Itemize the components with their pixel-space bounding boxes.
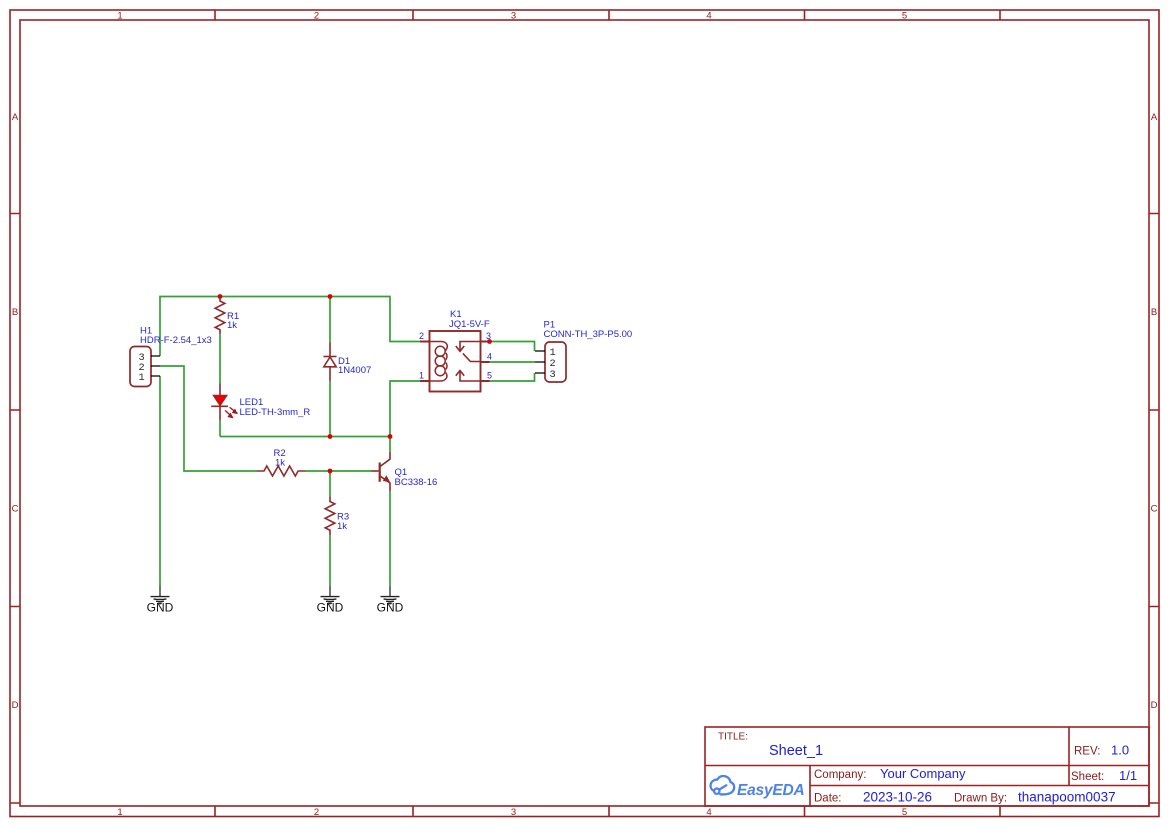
- svg-text:2: 2: [314, 807, 319, 818]
- svg-text:4: 4: [487, 352, 492, 362]
- svg-text:Sheet:: Sheet:: [1071, 771, 1104, 783]
- svg-text:1N4007: 1N4007: [338, 365, 371, 376]
- svg-text:HDR-F-2.54_1x3: HDR-F-2.54_1x3: [140, 335, 212, 346]
- wire relay pin1 to bottom rail: [390, 381, 420, 437]
- svg-text:C: C: [1151, 504, 1158, 515]
- ground GND (left, H1 pin1): [147, 586, 174, 615]
- junction node top rail / D1: [328, 294, 333, 299]
- svg-text:REV:: REV:: [1074, 746, 1100, 758]
- svg-text:1k: 1k: [227, 320, 237, 331]
- svg-text:Drawn By:: Drawn By:: [954, 793, 1007, 805]
- svg-text:Company:: Company:: [814, 769, 866, 781]
- svg-text:B: B: [12, 307, 18, 318]
- relay K1 coil: [430, 342, 447, 382]
- svg-text:Your Company: Your Company: [880, 766, 966, 781]
- junction node bottom rail / D1: [328, 434, 333, 439]
- svg-text:1: 1: [117, 11, 122, 22]
- wire bottom rail: [220, 436, 390, 438]
- relay K1 switch: [456, 342, 481, 382]
- svg-text:Date:: Date:: [814, 793, 842, 805]
- svg-text:GND: GND: [377, 601, 404, 615]
- wire H1 pin2 to R2 left: [160, 366, 257, 471]
- svg-text:BC338-16: BC338-16: [395, 477, 438, 488]
- resistor R2: [257, 466, 305, 476]
- svg-text:3: 3: [511, 11, 516, 22]
- svg-text:5: 5: [902, 11, 907, 22]
- svg-text:C: C: [12, 504, 19, 515]
- svg-text:Sheet_1: Sheet_1: [769, 743, 823, 759]
- svg-text:1k: 1k: [337, 521, 347, 532]
- wire R3 bottom to GND: [329, 535, 331, 586]
- ground GND (right, Q1 emitter): [377, 586, 404, 615]
- connector H1: [130, 347, 160, 387]
- title block: [705, 727, 1149, 806]
- svg-text:2: 2: [314, 11, 319, 22]
- diode D1: [324, 343, 337, 382]
- svg-text:1k: 1k: [275, 458, 285, 469]
- svg-text:5: 5: [487, 371, 492, 381]
- wire R1 bottom to LED1 anode: [219, 334, 221, 383]
- wire D1 cathode up to top rail: [329, 297, 331, 343]
- connector P1: [535, 342, 566, 382]
- wire Q1 emitter to GND: [389, 491, 391, 586]
- relay K1: [420, 331, 490, 392]
- svg-text:A: A: [1151, 112, 1158, 123]
- svg-text:thanapoom0037: thanapoom0037: [1018, 790, 1116, 805]
- svg-text:LED-TH-3mm_R: LED-TH-3mm_R: [240, 407, 311, 418]
- svg-text:EasyEDA: EasyEDA: [737, 782, 805, 799]
- wire base node down to R3: [329, 471, 331, 497]
- wire R2 right to Q1 base: [305, 470, 372, 472]
- transistor Q1: [372, 452, 391, 491]
- junction node top rail / R1: [218, 294, 223, 299]
- svg-text:B: B: [1151, 307, 1157, 318]
- ground GND (middle, R3): [317, 586, 344, 615]
- resistor R3: [325, 497, 335, 536]
- svg-text:D: D: [12, 700, 19, 711]
- resistor R1: [215, 297, 225, 335]
- svg-text:3: 3: [511, 807, 516, 818]
- svg-text:1.0: 1.0: [1111, 743, 1129, 758]
- svg-text:4: 4: [706, 807, 711, 818]
- svg-text:2: 2: [419, 331, 424, 341]
- wire relay pin4 to P1 pin2: [490, 361, 536, 363]
- LED LED1: [211, 384, 237, 421]
- wire LED1 cathode to bottom rail: [219, 421, 221, 437]
- svg-text:D: D: [1151, 700, 1158, 711]
- wire D1 anode down to bottom rail: [329, 381, 331, 437]
- svg-text:A: A: [12, 112, 19, 123]
- svg-text:1/1: 1/1: [1119, 768, 1137, 783]
- wire relay pin3 to P1 pin1: [490, 342, 535, 352]
- svg-text:3: 3: [550, 369, 556, 381]
- svg-text:1: 1: [419, 371, 424, 381]
- svg-text:TITLE:: TITLE:: [718, 732, 748, 743]
- junction node bottom rail / Q1 collector: [388, 434, 393, 439]
- svg-text:JQ1-5V-F: JQ1-5V-F: [449, 319, 490, 330]
- EasyEDA logo: [711, 776, 805, 799]
- wire Q1 collector: [389, 437, 391, 453]
- wire H1 pin1 to GND: [159, 376, 161, 586]
- junction node relay pin3 / P1 wire: [487, 339, 492, 344]
- svg-text:2023-10-26: 2023-10-26: [863, 790, 932, 805]
- svg-text:5: 5: [902, 807, 907, 818]
- svg-text:4: 4: [706, 11, 711, 22]
- svg-text:3: 3: [486, 331, 491, 341]
- svg-text:1: 1: [117, 807, 122, 818]
- svg-text:GND: GND: [147, 601, 174, 615]
- wire net VCC top rail from H1 pin3 to relay pin2: [160, 297, 420, 357]
- junction node R2 / R3 / Q1 base: [328, 469, 333, 474]
- svg-text:CONN-TH_3P-P5.00: CONN-TH_3P-P5.00: [544, 329, 633, 340]
- svg-text:1: 1: [139, 372, 145, 384]
- svg-text:GND: GND: [317, 601, 344, 615]
- wire relay pin5 to P1 pin3: [490, 373, 535, 381]
